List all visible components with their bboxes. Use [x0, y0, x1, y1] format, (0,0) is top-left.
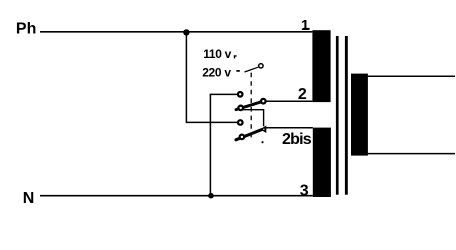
svg-text:2bis: 2bis [282, 131, 312, 148]
svg-text:110 v: 110 v [203, 47, 231, 61]
svg-text:Ph: Ph [16, 21, 36, 38]
svg-text:N: N [23, 190, 35, 207]
svg-text:2: 2 [298, 86, 307, 103]
svg-text:220 v: 220 v [202, 65, 231, 79]
svg-text:1: 1 [301, 17, 309, 34]
svg-text:3: 3 [300, 182, 309, 199]
